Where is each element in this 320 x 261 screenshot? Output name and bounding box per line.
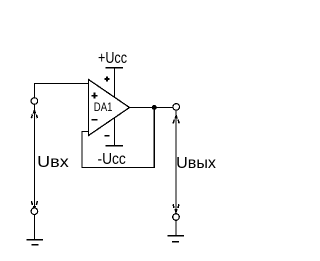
power polarity marker − (bottom)	[105, 135, 110, 137]
wire feedback loop	[82, 107, 154, 167]
arrow down at output bottom terminal	[173, 204, 179, 212]
wire output	[130, 106, 173, 108]
terminal output top (circle)	[173, 104, 180, 111]
junction node (dot)	[152, 105, 157, 110]
wire to ground left	[33, 215, 35, 239]
label -Ucc	[98, 151, 126, 168]
terminal output bottom (circle)	[173, 214, 180, 221]
svg-text:Uвых: Uвых	[176, 155, 216, 172]
power pin +Ucc (top bar and stub)	[106, 67, 123, 97]
power polarity marker + (top)	[105, 77, 110, 82]
ground right	[168, 235, 184, 243]
arrow up at output top terminal	[173, 115, 179, 123]
node label Uвых	[176, 155, 216, 172]
label +Ucc	[98, 50, 127, 67]
node label Uвх	[37, 154, 68, 171]
inverting input marker −	[92, 119, 98, 121]
op-amp DA1 label	[94, 100, 113, 114]
svg-text:-Ucc: -Ucc	[98, 151, 126, 168]
svg-text:+Ucc: +Ucc	[98, 50, 127, 67]
op-amp DA1 triangle	[89, 80, 130, 136]
terminal input bottom (circle)	[31, 208, 38, 215]
wire output rail (right vertical)	[175, 110, 177, 213]
svg-text:Uвх: Uвх	[37, 154, 68, 171]
terminal input top (circle)	[31, 98, 38, 105]
svg-text:DA1: DA1	[94, 100, 113, 114]
wire input (top horizontal + drop to terminal)	[34, 84, 88, 98]
arrow up at input top terminal	[31, 110, 37, 118]
arrow down at input bottom terminal	[31, 201, 37, 209]
non-inverting input marker +	[92, 93, 98, 99]
ground left	[27, 239, 44, 246]
wire input rail (left vertical)	[33, 105, 35, 208]
power pin -Ucc (bottom stub and bar)	[106, 118, 123, 147]
wire to ground right	[175, 221, 177, 237]
